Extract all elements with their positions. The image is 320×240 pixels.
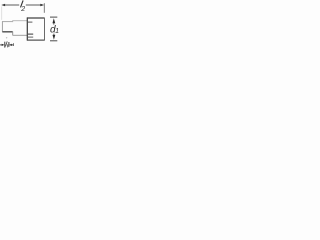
background [0,0,60,50]
dimension l2: left extension line (faint) [1,7,3,20]
body internal line upper [28,21,32,23]
dimension l2: dimension line right segment [26,4,41,6]
dimension l2: right extension line [43,3,45,13]
svg-text:1: 1 [55,28,59,35]
socket body: bottom edge [27,39,45,41]
tip section: left edge [1,21,3,32]
tip section: bottom edge [2,31,12,33]
dimension l1: label l [6,41,8,46]
dimension l1: right tick [8,42,10,47]
tip section: top edge [2,21,12,23]
shank mid-section: bottom edge [13,34,28,36]
dimension l1: right-pointing arrowhead [2,44,5,46]
dimension l1: right lead line [11,44,13,46]
shank mid-section: top edge [13,20,28,22]
step up between tip and shank (top) [12,20,14,22]
socket body: left edge [26,17,28,40]
socket body: right edge [44,18,46,41]
svg-text:2: 2 [20,6,25,13]
step down between tip and shank (bottom) [12,32,14,36]
dimension l1: label subscript 1 [7,44,9,47]
dimension d1: bottom tick [50,40,57,42]
dimension d1: upper stem [53,23,55,25]
dimension d1: lower stem [53,34,55,36]
dimension l1: left tick [4,42,6,48]
dimension l2: label l [21,0,24,7]
body internal line lower 2 [28,36,33,38]
dimension l2: dimension line left segment [5,4,20,6]
dimension l2: left arrowhead [1,4,5,7]
socket body: top edge [27,17,45,19]
dimension d1: up arrowhead [52,18,55,23]
faint extension dot above l1 dimension [6,37,7,38]
dimension l1: left-pointing arrowhead [9,44,12,46]
dimension d1: down arrowhead [53,35,56,40]
body internal line lower 1 [28,33,33,35]
dimension l1: left lead line [0,44,2,46]
dimension l2: right arrowhead [40,4,44,7]
small end tick on l1 right lead line [12,43,14,46]
dimension d1: top tick [50,16,57,18]
